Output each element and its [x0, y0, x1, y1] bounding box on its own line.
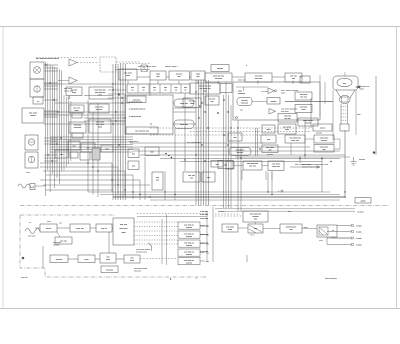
wires: audio row	[43, 232, 124, 268]
block: det	[285, 73, 302, 82]
connector J1 lower cell	[30, 79, 44, 97]
svg-text:xxxx xxx: xxxx xxx	[120, 228, 129, 230]
meter symbol M2	[34, 86, 40, 92]
svg-text:xxx: xxx	[254, 219, 257, 221]
wire: lower feed 2	[137, 216, 207, 218]
block: audio 1	[50, 255, 68, 263]
svg-text:xxx x: xxx x	[319, 240, 323, 242]
block: sw A	[68, 141, 80, 150]
svg-text:xx: xx	[165, 90, 167, 92]
svg-text:xxx xxx: xxx xxx	[284, 118, 290, 120]
svg-text:xxxx xxx: xxxx xxx	[255, 78, 263, 80]
svg-text:xxxxxxx: xxxxxxx	[357, 212, 364, 214]
svg-text:xxxxxx: xxxxxx	[217, 68, 223, 70]
svg-text:xxx xxx xxx xxx: xxx xxx xxx xxx	[135, 131, 149, 133]
block: rectifier	[268, 161, 284, 171]
block: sw C	[55, 150, 68, 158]
meter symbol M1	[34, 67, 41, 74]
block: CRT base	[340, 124, 349, 131]
svg-text:xxxxxx xxxx x: xxxxxx xxxx x	[165, 66, 179, 68]
block: brightness	[278, 124, 296, 134]
legend column	[200, 207, 213, 262]
junction dot lower-left	[22, 257, 24, 259]
svg-text:xxxx xxx: xxxx xxx	[238, 80, 246, 82]
block: buffer 2	[89, 119, 111, 133]
block: delay line 1	[174, 99, 194, 107]
block: gate 2	[261, 135, 276, 143]
svg-text:x xxxx xxxx xx: x xxxx xxxx xx	[129, 102, 143, 104]
wire: to mixer	[116, 61, 140, 63]
block: audio out	[100, 253, 116, 263]
svg-text:xxxx xxx: xxxx xxx	[74, 127, 82, 129]
wire: remote to filters	[116, 69, 150, 71]
block: IF amp	[245, 73, 272, 82]
svg-text:xxxxxxx: xxxxxxx	[53, 245, 60, 247]
wire bus: center verticals	[196, 80, 209, 205]
svg-text:xxx xxx: xxx xxx	[56, 259, 63, 261]
block: relay aux 1	[128, 149, 139, 158]
svg-text:xxx xxx: xxx xxx	[237, 152, 244, 154]
block: small aux	[300, 76, 310, 83]
svg-text:x xxx xxx: x xxx xxx	[200, 211, 208, 213]
svg-text:xxxx: xxxx	[360, 89, 364, 91]
wire: bus y103	[55, 102, 130, 104]
svg-text:xxx xxx: xxx xxx	[300, 97, 307, 99]
wire bus: connector stubs	[44, 65, 58, 161]
block: osc 1	[69, 105, 84, 113]
svg-text:xxx: xxx	[60, 154, 63, 156]
svg-text:xxx xxx: xxx xxx	[267, 154, 273, 156]
container corner dot	[236, 117, 238, 119]
block: reg D	[314, 145, 334, 153]
block: video processor (large)	[125, 95, 173, 134]
junction cluster dots	[165, 153, 172, 159]
svg-text:xxx xxxx: xxx xxxx	[281, 111, 289, 113]
wire legend-control	[215, 215, 243, 217]
wire: power osc leads	[234, 166, 272, 181]
wire: CRT left lead	[332, 90, 334, 140]
svg-text:xxx: xxx	[106, 149, 109, 151]
block: power osc	[243, 161, 262, 170]
svg-text:xxxx: xxxx	[126, 75, 130, 77]
wire: det column verticals	[320, 75, 325, 117]
svg-text:xxx: xxx	[132, 166, 135, 168]
wire: CRT down lead	[344, 130, 346, 197]
wire readout-PSU	[302, 228, 317, 230]
sub-block: output cell	[126, 127, 158, 134]
wire mesh: upper horizontals	[44, 84, 345, 162]
block: out 1	[183, 172, 200, 182]
junction at H drive tip	[275, 90, 277, 92]
block: L1 terminal	[30, 184, 35, 190]
svg-text:xxx: xxx	[292, 78, 295, 80]
svg-text:x xx x xxxx xxxxx: x xx x xxxx xxxxx	[187, 142, 201, 144]
svg-text:xxx xx: xxx xx	[320, 128, 326, 130]
svg-text:xxxx: xxxx	[228, 229, 232, 231]
wires: stack feed verticals	[162, 214, 167, 265]
svg-text:xxx: xxx	[234, 137, 237, 139]
block: sw D	[70, 152, 78, 158]
block: RF amp lower	[40, 224, 57, 232]
lower container right	[206, 212, 208, 262]
PS1 inner hatch	[319, 227, 328, 235]
wires PS1 drops	[327, 237, 350, 245]
block: line filter FL1	[22, 108, 44, 123]
svg-text:xxxxxxx xxxx: xxxxxxx xxxx	[136, 252, 147, 254]
block: audio filter	[101, 266, 118, 273]
svg-text:xxx: xxx	[267, 139, 270, 141]
svg-text:x: x	[196, 278, 197, 280]
wire bus: mid verticals	[113, 64, 126, 200]
block: power supply PS1	[317, 225, 337, 237]
generator G1	[25, 135, 38, 150]
block: sens	[222, 224, 238, 232]
wire: y157 run	[235, 156, 350, 158]
block: aux right	[313, 124, 332, 131]
block: strip end cell	[220, 84, 232, 93]
svg-text:xxx: xxx	[254, 228, 257, 230]
svg-text:xxxx: xxxx	[75, 110, 79, 112]
svg-text:xxxx: xxxx	[106, 259, 110, 261]
block: sw G	[101, 145, 113, 152]
svg-text:xxx xxxx: xxx xxxx	[106, 270, 113, 272]
wire: long bus 5	[215, 208, 355, 210]
svg-text:xxxx: xxxx	[130, 260, 134, 262]
svg-text:xxx: xxx	[156, 180, 159, 182]
svg-text:xxx: xxx	[73, 146, 76, 148]
svg-text:xxxx xxx: xxxx xxx	[180, 124, 188, 126]
junction dots mid bus	[112, 89, 122, 121]
block: out 3	[211, 161, 223, 168]
svg-text:xxx xxx: xxx xxx	[249, 166, 256, 168]
svg-text:xx: xx	[175, 90, 177, 92]
svg-text:x xxxx: x xxxx	[356, 238, 362, 240]
svg-text:x xxx xxx: x xxx xxx	[200, 251, 208, 253]
terminal label bus4	[355, 198, 371, 204]
svg-text:xxxx: xxxx	[267, 129, 271, 131]
wire from A1	[77, 62, 98, 64]
svg-text:xx: xx	[132, 90, 134, 92]
svg-text:x xxx xxx: x xxx xxx	[200, 226, 208, 228]
svg-text:xx: xx	[185, 90, 187, 92]
wire diag to osc	[57, 232, 60, 237]
junction marker	[68, 97, 70, 99]
block: readout	[280, 224, 302, 233]
block: AGC aux	[183, 98, 201, 108]
block: filter 3	[191, 71, 205, 80]
antenna coil input	[25, 229, 40, 234]
block: buffer 1	[89, 104, 109, 113]
svg-text:xxxxxx: xxxxxx	[359, 159, 365, 161]
wire: long bus 3	[113, 196, 345, 198]
svg-text:x xxx xxx: x xxx xxx	[200, 218, 208, 220]
block: out 4	[218, 161, 233, 169]
svg-text:xxxx xxxxxx: xxxx xxxxxx	[325, 278, 338, 280]
block: cal 2	[262, 145, 278, 153]
symbol: circle G1	[28, 139, 34, 145]
wire: staircase runs	[40, 163, 150, 200]
svg-text:xxxx xxx: xxxx xxx	[291, 140, 299, 142]
block: AGC	[205, 96, 219, 105]
svg-text:xxxxxxx: xxxxxxx	[238, 93, 245, 95]
svg-text:xx: xx	[154, 90, 156, 92]
wire: speaker to stack	[140, 258, 177, 260]
svg-text:xxx: xxx	[197, 76, 200, 78]
sub-block osc2 trim	[72, 133, 83, 138]
CRT gun circle	[340, 95, 351, 103]
arrow: H drive	[268, 88, 275, 94]
strip dividers	[138, 84, 181, 93]
block: relay aux 2	[128, 161, 139, 170]
svg-text:xxxxxx xxxx x xxx: xxxxxx xxxx x xxx	[302, 166, 318, 168]
svg-text:xxx: xxx	[290, 229, 293, 231]
block: modulator	[89, 87, 113, 99]
svg-text:xxx xxx: xxx xxx	[60, 241, 67, 243]
dashed block: remote unit	[100, 57, 116, 72]
svg-text:xxx xxx: xxx xxx	[321, 140, 328, 142]
svg-text:xx: xx	[150, 124, 152, 126]
block: video cascade 1	[278, 114, 297, 123]
block: sw E	[80, 152, 90, 160]
svg-text:xxx: xxx	[87, 148, 90, 150]
svg-text:xxxx xxx: xxxx xxx	[241, 102, 248, 104]
svg-text:xxx: xxx	[132, 154, 135, 156]
block: converter lower	[70, 224, 90, 232]
block: osc 2	[69, 122, 86, 133]
op-amp A2	[69, 77, 77, 84]
dashed outline remote	[100, 57, 116, 72]
svg-text:xxx xxx: xxx xxx	[21, 277, 28, 279]
CRT bezel	[333, 76, 358, 90]
wire: dashed lower feed	[137, 213, 207, 215]
wire: dashed lower feed 3	[215, 213, 240, 215]
block: chassis unit	[113, 218, 134, 245]
arrow: V drive	[269, 109, 276, 115]
block: cal 1	[229, 148, 251, 156]
svg-text:x xxxx: x xxxx	[356, 232, 362, 234]
svg-text:xxx: xxx	[178, 76, 181, 78]
wire: long bus 6	[220, 210, 355, 212]
svg-text:x xxx xxx: x xxx xxx	[200, 243, 208, 245]
block: video out right	[298, 118, 318, 126]
svg-text:xxxx: xxxx	[85, 259, 89, 261]
wire: CRT right lead	[355, 90, 357, 135]
marks bottom mid	[200, 255, 247, 262]
svg-text:xxx xx: xxx xx	[101, 228, 107, 230]
svg-text:xxx: xxx	[190, 178, 193, 180]
generator G2	[25, 152, 38, 168]
svg-text:xxx: xxx	[151, 152, 154, 154]
op-amp A1	[69, 59, 77, 66]
block: tall relay	[152, 172, 163, 190]
svg-text:xxx xxx: xxx xxx	[186, 254, 192, 256]
ground symbol GND1	[351, 157, 357, 165]
svg-text:xxx: xxx	[269, 150, 272, 152]
svg-text:xxxx: xxxx	[302, 109, 306, 111]
wire sens-meter	[238, 227, 248, 229]
svg-text:xxxx: xxxx	[285, 129, 289, 131]
symbol: circle G2	[28, 156, 34, 162]
page right edge	[396, 27, 398, 309]
block: sw F	[92, 148, 100, 160]
block: blanking	[295, 105, 312, 113]
svg-text:xxx xxxxxx xxxxx xxxxx: xxx xxxxxx xxxxx xxxxx	[36, 58, 60, 60]
svg-text:x xxx xxx: x xxx xxx	[200, 234, 208, 236]
svg-text:xxx xx: xxx xx	[46, 228, 52, 230]
svg-text:xxxx: xxxx	[190, 103, 194, 105]
block: AF amp	[66, 87, 82, 96]
junction dot	[199, 105, 201, 107]
svg-text:xx: xx	[143, 90, 145, 92]
strip: channel cells	[127, 84, 190, 93]
svg-text:xxxxxx: xxxxxx	[271, 101, 277, 103]
svg-text:xxxx: xxxx	[47, 221, 51, 223]
junction dot 2	[217, 112, 219, 114]
block: audio 2	[78, 255, 95, 263]
block: sw B	[81, 143, 95, 152]
sub-block osc1 trim	[72, 113, 82, 118]
block: focus	[262, 125, 275, 133]
svg-text:xxx xxx: xxx xxx	[186, 262, 192, 264]
svg-text:xxx: xxx	[211, 101, 214, 103]
svg-text:xxx: xxx	[323, 149, 326, 151]
CRT gun inner	[342, 97, 349, 102]
wire control-meter	[255, 222, 257, 224]
lower container top	[20, 214, 115, 216]
wire: CRT top stub	[344, 72, 346, 76]
block: H out	[237, 98, 252, 106]
mixer M3 symbol	[141, 65, 148, 72]
svg-text:xxx xxx: xxx xxx	[316, 133, 322, 135]
svg-text:xxx xxx: xxx xxx	[186, 245, 192, 247]
svg-text:xxx xxx: xxx xxx	[186, 227, 192, 229]
svg-text:xxxx xxx: xxxx xxx	[180, 103, 188, 105]
wire: long bus 4	[150, 199, 340, 201]
svg-text:xxx: xxx	[59, 223, 62, 225]
block: power aux	[226, 161, 234, 169]
wire meter-readout	[263, 228, 280, 230]
block: control unit	[243, 211, 268, 222]
block: meter drive	[248, 224, 263, 233]
svg-text:xxx xxx: xxx xxx	[305, 123, 311, 125]
stub wires at mid bus	[108, 90, 126, 121]
wires: chassis dashed outputs	[134, 222, 178, 244]
svg-text:xx: xx	[29, 222, 31, 224]
wire: heavy bus y101	[285, 101, 333, 103]
svg-text:x xxxx: x xxxx	[356, 226, 362, 228]
svg-text:xxx: xxx	[288, 211, 291, 213]
svg-text:xxx xxx: xxx xxx	[186, 236, 192, 238]
container: sweep group	[233, 82, 320, 120]
connector J1 upper cell	[30, 62, 44, 79]
divider dash-dot	[20, 205, 390, 207]
svg-text:xxx: xxx	[240, 110, 243, 112]
svg-text:xxxxx: xxxxx	[361, 201, 366, 203]
block: out 2	[202, 172, 215, 182]
block: mid sw	[145, 147, 159, 156]
block: reg B	[314, 135, 334, 143]
svg-text:xxx xxx: xxx xxx	[120, 224, 128, 226]
terminal row right	[327, 224, 362, 247]
svg-text:xxx: xxx	[207, 177, 210, 179]
lower container border	[20, 215, 207, 277]
inner border right	[375, 76, 377, 155]
svg-text:x xxx xxx: x xxx xxx	[200, 214, 208, 216]
wire bus: left vertical trunk	[46, 62, 62, 196]
CRT yoke	[336, 90, 355, 98]
svg-text:x xxxx xxx xx: x xxxx xxx xx	[129, 116, 142, 118]
wire: long bus 1	[88, 191, 330, 193]
block: top label box	[211, 65, 229, 72]
svg-text:xxxx: xxxx	[98, 127, 102, 129]
svg-text:xxxx: xxxx	[72, 92, 76, 94]
wire: reg link	[291, 139, 340, 155]
svg-text:xxxx: xxxx	[281, 93, 285, 95]
block: IF lower	[96, 224, 112, 232]
strip cell texts	[131, 87, 187, 92]
svg-text:xxxx xxx: xxxx xxx	[134, 271, 141, 273]
svg-text:xxx xxxx: xxx xxxx	[28, 236, 36, 238]
wire to A2	[58, 80, 69, 82]
svg-text:xxxx xxx: xxxx xxx	[272, 166, 280, 168]
svg-text:xxx: xxx	[157, 76, 160, 78]
svg-text:xxx xxx: xxx xxx	[96, 109, 103, 111]
svg-text:x xxxx: x xxxx	[356, 245, 362, 247]
page top edge	[0, 26, 400, 28]
arrow annotation	[290, 166, 320, 168]
block: filter 1	[150, 71, 166, 80]
svg-text:xxxx: xxxx	[26, 172, 30, 174]
svg-text:xxx xxxx: xxx xxxx	[215, 78, 223, 80]
block: V sweep	[267, 98, 280, 105]
stack: output modules	[178, 222, 200, 265]
terminal block TB1	[33, 97, 43, 104]
wire: dashed run2	[120, 63, 150, 65]
hatch meter drive	[249, 225, 262, 233]
svg-text:xxx: xxx	[206, 261, 209, 263]
svg-text:xxx: xxx	[224, 165, 227, 167]
wire bus: left trunk extension	[64, 95, 71, 170]
title cell	[127, 96, 146, 103]
block: sync sep	[190, 83, 220, 94]
stack terminals	[200, 226, 209, 264]
wire bus: dense horizontals	[50, 137, 133, 152]
row link stubs	[128, 77, 302, 84]
svg-text:xxx xxx: xxx xxx	[218, 211, 225, 213]
wires: container top	[236, 87, 268, 102]
svg-text:xx xx: xx xx	[250, 235, 254, 237]
wire: top dashed run	[36, 57, 98, 59]
wires: lower row1	[35, 227, 113, 229]
page left edge	[2, 27, 4, 309]
svg-text:xxxx xxx: xxxx xxx	[76, 228, 84, 230]
block: HV supply	[295, 92, 312, 100]
arrow to CRT	[356, 86, 360, 88]
wire from L1	[35, 185, 46, 187]
dashed outline remote 2	[100, 57, 116, 72]
block: filter 2	[169, 71, 190, 80]
hook wire at chassis	[148, 243, 152, 251]
block: osc lower	[55, 237, 72, 244]
dot at inner border end	[373, 152, 375, 154]
svg-text:x xxxxxxx xxxx xx: x xxxxxxx xxxx xx	[129, 109, 146, 111]
page bottom edge	[0, 308, 400, 310]
block: delay line 2	[174, 120, 194, 129]
wire mesh: upper verticals	[88, 80, 322, 211]
junction dot 3	[281, 190, 283, 192]
coil symbol L1	[18, 184, 34, 188]
block: speaker match	[124, 255, 140, 263]
